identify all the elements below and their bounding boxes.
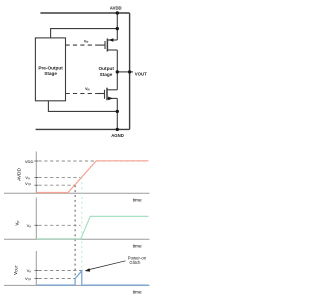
svg-text:VP: VP <box>84 39 89 44</box>
panel 3 dashed level lines <box>39 271 82 279</box>
panel 3 VOUT axes <box>4 251 150 285</box>
wire PMOS source to AVDD rail <box>116 13 118 40</box>
wire PMOS drain to VOUT node <box>116 50 118 72</box>
wire right vertical <box>129 13 131 129</box>
svg-text:VP: VP <box>15 220 21 225</box>
wire NMOS gate dashed <box>66 93 105 95</box>
wire pre-output bottom to NMOS source <box>48 101 117 112</box>
label VOUT <box>135 72 147 77</box>
svg-text:AVDD: AVDD <box>16 168 21 181</box>
panel 3 ticks <box>34 271 38 279</box>
wire PMOS gate dashed <box>66 44 106 46</box>
panel 3 waveform VOUT glitch <box>37 271 149 285</box>
wire pre-output top to AVDD <box>51 29 118 38</box>
panel 2 waveform Vp <box>37 216 149 238</box>
svg-text:time: time <box>133 290 142 296</box>
panel 1 ticks <box>34 161 38 185</box>
vertical dashed marker t1 <box>74 185 76 278</box>
wire NMOS source to AGND rail <box>116 98 118 129</box>
transistor Q1 PMOS <box>105 38 117 51</box>
wire NMOS drain to VOUT node <box>116 72 118 90</box>
vertical dashed marker t2 <box>81 177 83 270</box>
net label AGND <box>111 133 124 138</box>
wire VOUT stub <box>117 71 133 73</box>
junction dot VOUT node <box>116 70 119 73</box>
svg-text:VOUT: VOUT <box>13 265 19 275</box>
annotation Power-on Glitch <box>85 256 147 272</box>
junction dot AVDD rail <box>116 11 119 14</box>
net label AVDD <box>110 6 122 11</box>
panel 2 Vp axes <box>4 198 150 240</box>
svg-text:Stage: Stage <box>100 72 113 77</box>
svg-text:AGND: AGND <box>111 133 124 138</box>
label Vn <box>85 87 90 92</box>
panel 1 AVDD axes <box>4 152 150 194</box>
panel 1 dashed level lines <box>39 161 149 185</box>
transistor Q2 NMOS <box>105 88 118 101</box>
panel 2 dashed level line <box>39 224 81 226</box>
svg-text:VOUT: VOUT <box>135 72 147 77</box>
junction dot pre-output top <box>116 27 119 30</box>
svg-text:Stage: Stage <box>44 71 57 76</box>
label Vp <box>84 39 89 44</box>
svg-text:Output: Output <box>99 66 115 71</box>
svg-text:time: time <box>133 244 142 250</box>
junction dot AGND rail <box>116 128 119 131</box>
junction dot VOUT right <box>128 70 131 73</box>
svg-text:time: time <box>133 198 142 204</box>
block Pre-Output Stage <box>35 38 65 101</box>
svg-text:AVDD: AVDD <box>110 6 122 11</box>
svg-text:VDD: VDD <box>25 159 34 164</box>
svg-text:Pre-Output: Pre-Output <box>38 66 63 71</box>
panel 2 tick <box>34 224 38 226</box>
wire AGND rail <box>36 128 130 130</box>
wire AVDD rail <box>40 12 129 14</box>
svg-text:Glitch: Glitch <box>129 260 141 265</box>
label Output Stage <box>99 66 115 77</box>
junction dot pre-output bottom <box>116 110 119 113</box>
panel 1 waveform AVDD ramp <box>37 161 149 193</box>
svg-text:VN: VN <box>85 87 90 92</box>
